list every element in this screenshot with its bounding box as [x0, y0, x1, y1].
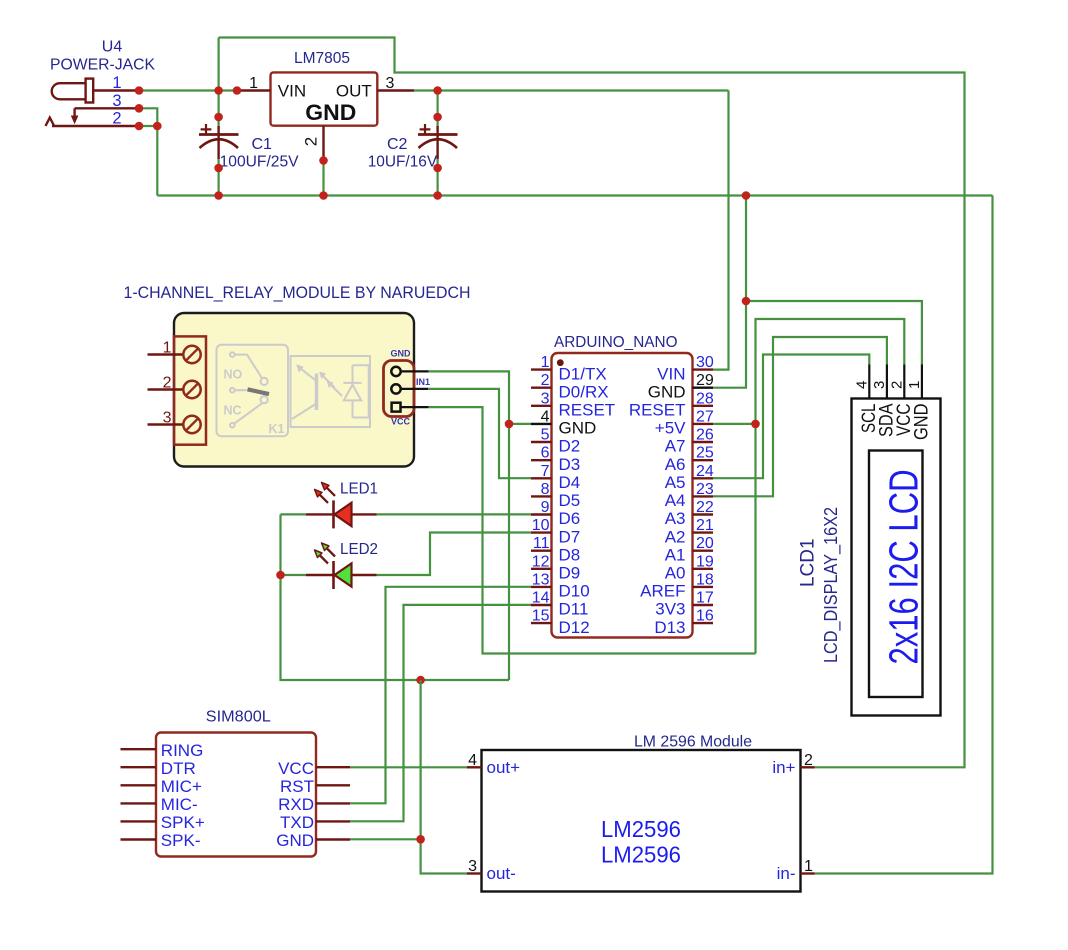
svg-text:3: 3 [163, 410, 172, 427]
capacitor C2 [437, 91, 439, 127]
arduino pin 24 A5 [693, 477, 714, 479]
svg-text:1: 1 [541, 354, 550, 371]
svg-text:VIN: VIN [278, 82, 306, 101]
wire: LED2 anode to D7 [377, 533, 532, 576]
svg-text:RESET: RESET [629, 401, 686, 420]
svg-text:23: 23 [696, 481, 714, 498]
relay pin VCC [392, 403, 401, 412]
wire: jack pin2 stub joint [139, 125, 157, 127]
LCD pin 2 VCC [903, 365, 905, 399]
arduino pin 4 GND [531, 423, 552, 425]
LM7805 pin 2 [322, 126, 324, 161]
svg-text:15: 15 [532, 608, 550, 625]
svg-text:MIC-: MIC- [161, 795, 198, 814]
wire: LED1 anode to D6 [377, 513, 532, 515]
svg-text:A1: A1 [665, 545, 686, 564]
svg-text:A4: A4 [665, 491, 686, 510]
LED LED2 [306, 574, 333, 576]
svg-text:19: 19 [696, 553, 714, 570]
svg-text:A2: A2 [665, 527, 686, 546]
arduino pin 16 D13 [693, 622, 714, 624]
svg-text:IN1: IN1 [416, 377, 430, 387]
svg-text:LED1: LED1 [340, 480, 378, 497]
SIM800L pin MIC- [121, 802, 157, 804]
wire: GND branch to LCD GND [746, 301, 922, 365]
svg-text:RING: RING [161, 741, 204, 760]
svg-text:D2: D2 [559, 437, 581, 456]
LCD pin 3 SDA [886, 365, 888, 399]
arduino pin 19 A0 [693, 568, 714, 570]
svg-text:GND: GND [648, 382, 686, 401]
svg-text:GND: GND [391, 349, 412, 359]
svg-text:in+: in+ [772, 758, 795, 777]
svg-text:GND: GND [911, 404, 932, 441]
wire: relay IN1 to arduino D4 [428, 389, 531, 478]
relay module body [174, 313, 414, 467]
svg-text:in-: in- [777, 864, 796, 883]
svg-text:RESET: RESET [559, 401, 616, 420]
SIM800L pin TXD [316, 820, 350, 822]
LCD pin 1 GND [921, 365, 923, 399]
svg-text:3: 3 [386, 75, 395, 92]
wire: GND to LM2596 out- [421, 680, 467, 874]
wire: C1 top branch [218, 38, 220, 91]
svg-text:29: 29 [696, 372, 714, 389]
svg-text:GND: GND [305, 100, 356, 125]
LM2596 pin 2 in+ [801, 766, 815, 768]
SIM800L pin RST [316, 784, 350, 786]
relay pin GND [391, 367, 400, 376]
svg-text:NC: NC [224, 404, 242, 418]
svg-text:1: 1 [804, 858, 813, 875]
svg-text:ARDUINO_NANO: ARDUINO_NANO [554, 334, 678, 351]
arduino pin 21 A2 [693, 531, 714, 533]
svg-text:4: 4 [541, 408, 550, 425]
U4 pin 2 with spring contact [52, 125, 139, 127]
svg-text:4: 4 [853, 381, 870, 389]
svg-text:13: 13 [532, 571, 550, 588]
svg-text:TXD: TXD [280, 813, 314, 832]
svg-text:AREF: AREF [640, 582, 685, 601]
svg-text:2: 2 [163, 375, 172, 392]
LM2596 pin 4 out+ [467, 766, 482, 768]
junction LED2 cathode rail [276, 571, 285, 580]
LED LED1 [306, 513, 333, 515]
svg-text:100UF/25V: 100UF/25V [220, 154, 299, 171]
svg-text:10: 10 [532, 517, 550, 534]
svg-text:D1/TX: D1/TX [559, 364, 607, 383]
svg-text:LM2596: LM2596 [601, 842, 681, 868]
svg-text:C2: C2 [387, 136, 408, 153]
svg-text:LM7805: LM7805 [294, 50, 350, 67]
svg-text:17: 17 [696, 590, 714, 607]
svg-text:DTR: DTR [161, 759, 196, 778]
svg-text:2x16 I2C LCD: 2x16 I2C LCD [881, 470, 927, 665]
svg-text:16: 16 [696, 608, 714, 625]
SIM800L pin RING [121, 748, 157, 750]
module LM2596 [482, 750, 801, 892]
wire: jack pin3 to pin2 net [139, 108, 157, 126]
svg-text:LED2: LED2 [340, 541, 378, 558]
svg-text:VCC: VCC [391, 417, 411, 427]
power jack U4 [52, 79, 93, 103]
relay pin IN1 [391, 384, 400, 393]
svg-text:GND: GND [559, 419, 597, 438]
svg-text:D6: D6 [559, 509, 581, 528]
svg-text:3: 3 [112, 92, 121, 110]
svg-text:1-CHANNEL_RELAY_MODULE BY NARU: 1-CHANNEL_RELAY_MODULE BY NARUEDCH [124, 284, 471, 302]
wire: GND rail to LM2596 in- [815, 196, 993, 874]
svg-text:14: 14 [532, 590, 550, 607]
SIM800L pin GND [316, 838, 350, 840]
svg-text:3V3: 3V3 [655, 600, 685, 619]
LM2596 pin 1 in- [801, 872, 815, 874]
svg-text:25: 25 [696, 445, 714, 462]
svg-text:OUT: OUT [336, 82, 372, 101]
junction arduino GND pin4 [505, 420, 514, 429]
junction bottom GND rail [416, 676, 425, 685]
arduino pin 1 D1/TX [531, 368, 552, 370]
svg-text:D7: D7 [559, 527, 581, 546]
svg-text:2: 2 [541, 372, 550, 389]
svg-text:RXD: RXD [278, 795, 314, 814]
LED LED2 emission arrows [320, 555, 329, 564]
LED LED1 emission arrows [320, 494, 329, 503]
svg-text:D11: D11 [559, 600, 589, 619]
SIM800L pin MIC+ [121, 784, 157, 786]
junction +5V [751, 420, 760, 429]
svg-text:26: 26 [696, 427, 714, 444]
svg-text:7: 7 [541, 463, 550, 480]
svg-text:A7: A7 [665, 437, 686, 456]
relay ghost optocoupler symbol [291, 356, 371, 427]
arduino pin 17 3V3 [693, 604, 714, 606]
svg-text:18: 18 [696, 571, 714, 588]
svg-text:RST: RST [280, 777, 314, 796]
LCD pin 4 SCL [868, 365, 870, 399]
svg-text:1: 1 [249, 75, 258, 92]
svg-text:LCD1: LCD1 [797, 539, 819, 588]
LM7805 pin 1 [237, 89, 271, 91]
wire: +5V vertical to LCD VCC [756, 319, 905, 654]
wire: LM7805 pin2 to GND rail [322, 161, 324, 196]
wire: SIM800L VCC to LM2596 out+ [350, 766, 467, 768]
arduino pin 29 GND [693, 387, 714, 389]
svg-text:VIN: VIN [657, 364, 685, 383]
wire: SIM800L GND joint [350, 838, 421, 840]
svg-text:1: 1 [112, 74, 121, 92]
svg-text:K1: K1 [269, 422, 285, 436]
svg-text:LM 2596 Module: LM 2596 Module [634, 734, 752, 751]
svg-text:D0/RX: D0/RX [559, 382, 609, 401]
svg-text:D12: D12 [559, 618, 590, 637]
arduino pin1 mark [557, 359, 564, 366]
arduino pin 27 +5V [693, 423, 714, 425]
wire: C2 bottom to GND rail [437, 159, 439, 196]
arduino pin 23 A4 [693, 495, 714, 497]
svg-text:27: 27 [696, 408, 714, 425]
arduino pin 10 D7 [531, 531, 552, 533]
wire: OUT to arduino VIN [414, 89, 729, 91]
svg-text:9: 9 [541, 499, 550, 516]
arduino pin 2 D0/RX [531, 387, 552, 389]
svg-text:8: 8 [541, 481, 550, 498]
relay screw terminal pin 2 [148, 388, 184, 390]
svg-text:A0: A0 [665, 564, 686, 583]
relay screw terminal pin 3 [148, 423, 184, 425]
SIM800L pin SPK- [121, 838, 157, 840]
svg-text:2: 2 [112, 110, 121, 128]
svg-text:21: 21 [696, 517, 714, 534]
wire: arduino A4 to LCD SDA [713, 337, 887, 496]
wire: arduino +5V branch [713, 423, 756, 425]
wire: relay GND to arduino GND pin4 and LED rail [429, 371, 509, 680]
wire: arduino D11 to SIM800L TXD [350, 605, 531, 821]
svg-text:24: 24 [696, 463, 714, 480]
svg-text:SPK+: SPK+ [161, 813, 205, 832]
relay screw terminal pin 1 [148, 353, 184, 355]
svg-text:1: 1 [906, 381, 923, 389]
arduino pin 5 D2 [531, 441, 552, 443]
arduino pin 30 VIN [693, 368, 714, 370]
svg-text:30: 30 [696, 354, 714, 371]
wire: arduino A5 to LCD SCL [713, 355, 869, 479]
U4 pin 1 [93, 89, 139, 91]
U4 pin 3 [75, 107, 139, 109]
arduino pin 3 RESET [531, 405, 552, 407]
svg-text:A3: A3 [665, 509, 686, 528]
svg-text:3: 3 [871, 381, 888, 389]
svg-text:NO: NO [224, 368, 243, 382]
junction SIM GND [416, 835, 425, 844]
svg-text:SPK-: SPK- [161, 831, 201, 850]
wire: LED vertical rail [281, 514, 510, 680]
svg-text:10UF/16V: 10UF/16V [368, 154, 438, 171]
svg-text:6: 6 [541, 445, 550, 462]
svg-text:11: 11 [533, 535, 550, 552]
SIM800L pin DTR [121, 766, 157, 768]
svg-text:D5: D5 [559, 491, 581, 510]
SIM800L pin SPK+ [121, 820, 157, 822]
arduino pin 26 A7 [693, 441, 714, 443]
svg-text:4: 4 [468, 752, 477, 769]
svg-text:D8: D8 [559, 545, 581, 564]
arduino pin 7 D4 [531, 477, 552, 479]
arduino pin 13 D10 [531, 586, 552, 588]
junction dots jack [135, 86, 144, 95]
relay pin header connector [384, 361, 415, 417]
svg-text:2: 2 [804, 752, 813, 769]
svg-text:D4: D4 [559, 473, 581, 492]
wire: relay VCC to +5V rail [429, 407, 756, 653]
junction GND rail [742, 191, 751, 200]
relay ghost contact symbol K1 [217, 345, 289, 437]
svg-text:GND: GND [276, 831, 314, 850]
LCD module LCD1 [852, 399, 941, 716]
svg-text:22: 22 [696, 499, 714, 516]
arduino pin 20 A1 [693, 550, 714, 552]
capacitor C1 [218, 91, 220, 127]
svg-text:MIC+: MIC+ [161, 777, 202, 796]
junction GND LCD branch [742, 297, 751, 306]
svg-text:D10: D10 [559, 582, 590, 601]
svg-text:VCC: VCC [278, 759, 314, 778]
svg-text:20: 20 [696, 535, 714, 552]
svg-text:D3: D3 [559, 455, 581, 474]
arduino pin 25 A6 [693, 459, 714, 461]
arduino pin 22 A3 [693, 513, 714, 515]
svg-text:3: 3 [468, 858, 477, 875]
svg-text:A5: A5 [665, 473, 686, 492]
LM7805 pin 3 [377, 89, 414, 91]
svg-text:U4: U4 [102, 39, 123, 56]
svg-text:28: 28 [696, 390, 714, 407]
wire: arduino GND29 to GND net [713, 196, 746, 388]
IC SIM800L [156, 733, 316, 857]
svg-text:LCD_DISPLAY_16X2: LCD_DISPLAY_16X2 [820, 507, 842, 663]
wire: GND rail [157, 194, 992, 196]
wire: arduino D10 to SIM800L RXD [350, 587, 531, 804]
svg-text:LM2596: LM2596 [601, 816, 681, 842]
wire: LED2 leads [281, 574, 307, 576]
arduino pin 12 D9 [531, 568, 552, 570]
svg-text:out-: out- [487, 864, 516, 883]
svg-text:A6: A6 [665, 455, 686, 474]
svg-text:2: 2 [302, 137, 321, 146]
wire: C1 bottom to GND rail [218, 159, 220, 196]
wire: V+ top rail to LM2596 in+ [219, 38, 965, 768]
arduino pin 9 D6 [531, 513, 552, 515]
arduino pin 18 AREF [693, 586, 714, 588]
SIM800L pin VCC [316, 766, 350, 768]
svg-text:out+: out+ [487, 758, 521, 777]
svg-text:+5V: +5V [655, 419, 686, 438]
arduino pin 8 D5 [531, 495, 552, 497]
svg-text:5: 5 [541, 427, 550, 444]
relay terminal block [174, 336, 206, 444]
IC ARDUINO_NANO [552, 353, 693, 638]
arduino pin 11 D8 [531, 550, 552, 552]
regulator U LM7805 [271, 72, 378, 125]
wire: left GND drop [156, 126, 158, 196]
svg-text:D9: D9 [559, 564, 581, 583]
wire: jack pin1 to VIN rail [139, 89, 237, 91]
svg-text:D13: D13 [654, 618, 685, 637]
arduino pin 14 D11 [531, 604, 552, 606]
svg-text:POWER-JACK: POWER-JACK [50, 57, 155, 74]
LM2596 pin 3 out- [467, 872, 482, 874]
SIM800L pin RXD [316, 802, 350, 804]
svg-text:C1: C1 [252, 136, 273, 153]
svg-text:1: 1 [163, 340, 172, 357]
svg-text:3: 3 [541, 390, 550, 407]
svg-text:12: 12 [532, 553, 550, 570]
arduino pin 6 D3 [531, 459, 552, 461]
svg-text:2: 2 [888, 381, 905, 389]
arduino pin 28 RESET [693, 405, 714, 407]
arduino pin 15 D12 [531, 622, 552, 624]
svg-text:SIM800L: SIM800L [206, 709, 271, 726]
